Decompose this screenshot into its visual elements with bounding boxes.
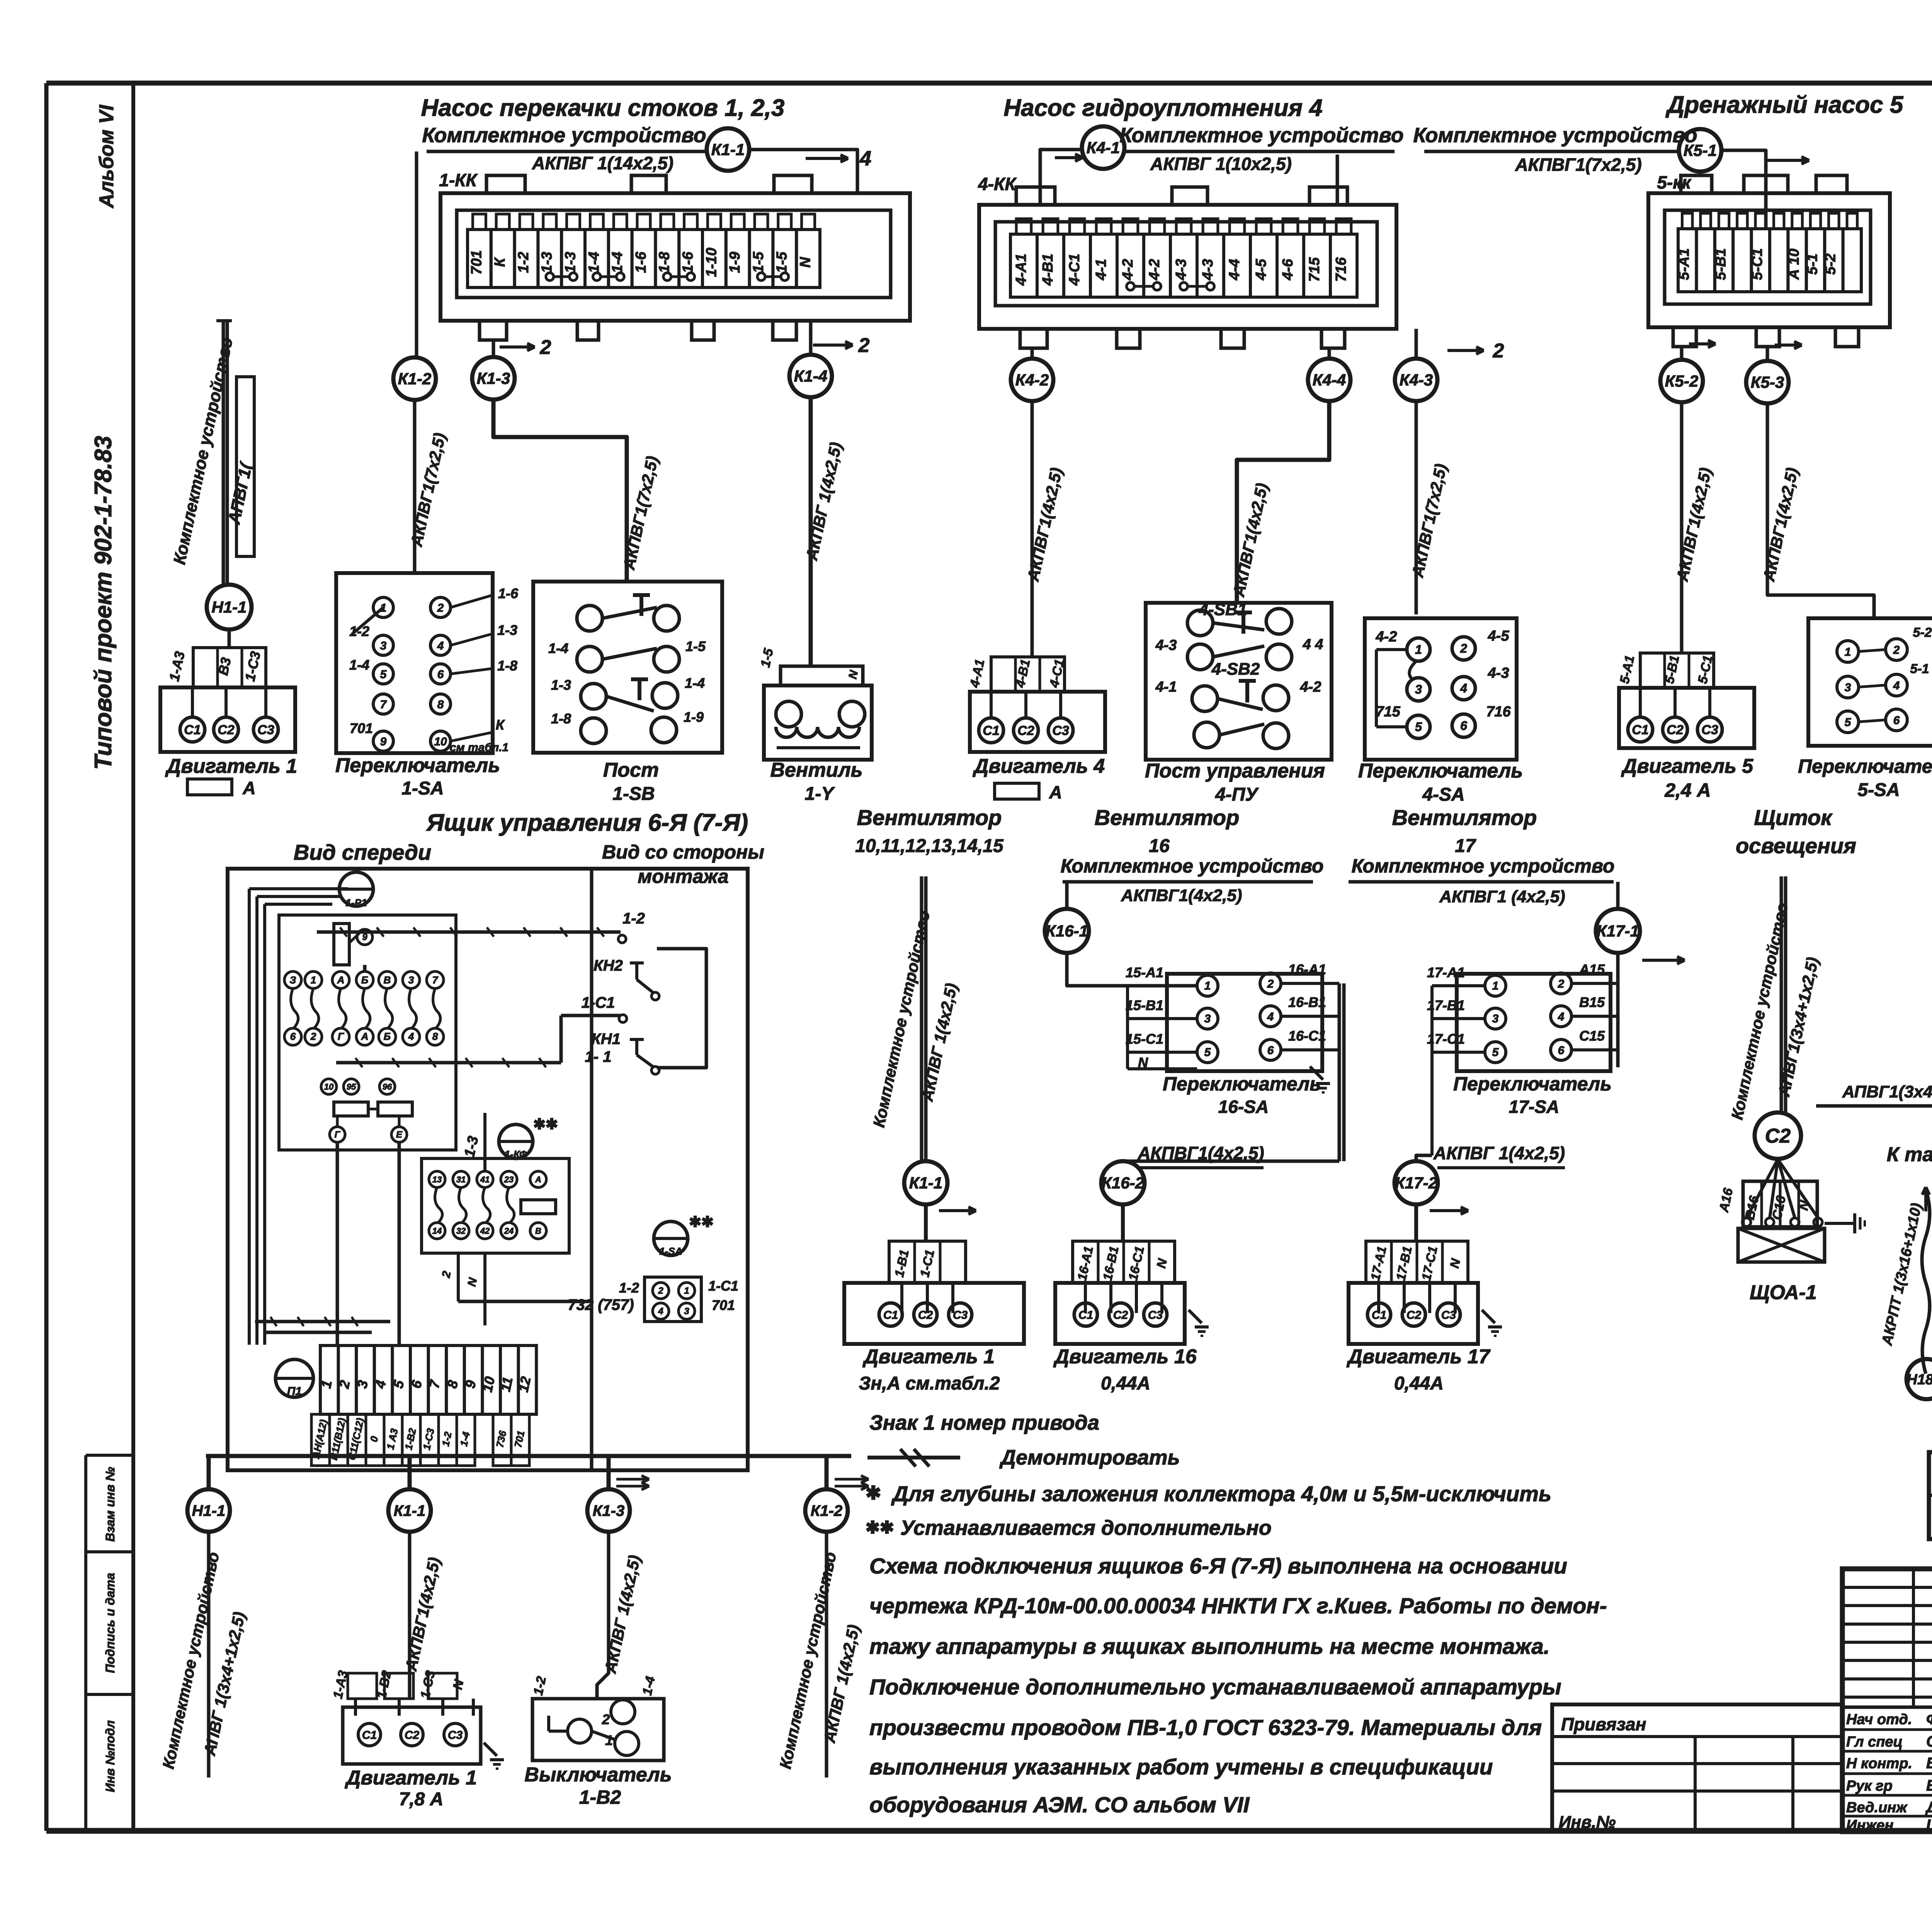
svg-text:1-SA: 1-SA [401,778,444,799]
svg-text:Двигатель 17: Двигатель 17 [1346,1345,1490,1368]
svg-text:Переключатель: Переключатель [1453,1073,1612,1095]
svg-text:3: 3 [684,1306,689,1317]
svg-text:1: 1 [1845,646,1851,658]
connector К1-4 [789,355,832,397]
svg-text:3: 3 [408,974,414,986]
svg-text:С3: С3 [448,1729,463,1742]
svg-text:1-4: 1-4 [586,252,602,273]
wire К1-3 down to switch 1-В2 [597,1532,609,1699]
svg-text:Вед.инж: Вед.инж [1846,1800,1908,1816]
switch Переключатель 17-SA [1457,974,1611,1071]
svg-text:4: 4 [1267,1010,1274,1023]
svg-text:6: 6 [437,668,444,681]
svg-text:К4-2: К4-2 [1015,371,1049,389]
wire К16-1 to switch 16-SA [1067,953,1197,986]
terminal circles 10 95 96 [321,1079,337,1094]
svg-text:Вентилятор: Вентилятор [857,805,1002,830]
svg-text:Подпись и дата: Подпись и дата [103,1573,117,1673]
connector К16-2 [1101,1161,1145,1204]
svg-text:4: 4 [1893,679,1900,692]
connector Н1-1 (cabinet) [187,1489,230,1532]
connector К5-2 [1660,360,1703,402]
svg-text:Барчан: Барчан [1926,1777,1932,1794]
svg-text:Двигатель 16: Двигатель 16 [1053,1345,1197,1368]
svg-text:6: 6 [1558,1044,1565,1057]
svg-text:4: 4 [658,1306,663,1317]
svg-text:13: 13 [432,1175,442,1184]
svg-text:4-5: 4-5 [1488,628,1510,644]
wire header bus vent17 [1349,880,1614,884]
svg-text:1-5: 1-5 [750,252,767,273]
svg-text:Бондарь: Бондарь [1926,1755,1932,1772]
svg-text:1-2: 1-2 [515,252,532,273]
svg-text:1-8: 1-8 [497,658,517,674]
wire К1-3 down to post 1-SB [493,400,627,582]
svg-text:1- 1: 1- 1 [585,1048,612,1065]
svg-text:4 4: 4 4 [1303,636,1323,653]
arrow at fans К1-1 [939,1209,976,1212]
svg-text:716: 716 [1333,257,1349,282]
motor Двигатель 1 (upper left) [193,648,266,687]
connector К17-1 [1596,909,1640,953]
svg-text:К: К [492,257,508,267]
svg-text:✱✱: ✱✱ [689,1214,714,1230]
svg-text:701: 701 [468,250,485,274]
svg-text:Н контр.: Н контр. [1846,1755,1912,1772]
svg-text:В15: В15 [1579,994,1605,1010]
svg-text:4-1: 4-1 [1155,679,1177,695]
svg-text:4: 4 [408,1031,414,1042]
wire header bus section 1 [427,150,707,153]
svg-text:5-1: 5-1 [1804,253,1820,275]
svg-text:96: 96 [383,1082,392,1092]
wire block to К1-3 [492,342,495,357]
svg-text:✱✱: ✱✱ [533,1116,558,1133]
svg-text:К5-1: К5-1 [1684,141,1717,160]
svg-text:С3: С3 [1701,723,1718,737]
svg-text:К1-4: К1-4 [794,367,828,385]
title block main [1842,1569,1932,1832]
svg-text:4-5: 4-5 [1253,259,1269,281]
connector К4-3 [1415,329,1418,359]
svg-text:5-2: 5-2 [1913,625,1932,640]
svg-text:П1: П1 [287,1385,302,1398]
arrow demontage 2 (section 4) [1447,349,1484,352]
svg-text:15-А1: 15-А1 [1126,964,1163,980]
svg-text:К1-3: К1-3 [593,1502,624,1519]
wires from relay box down [457,1253,460,1301]
svg-text:2: 2 [1893,644,1900,657]
svg-text:✱: ✱ [866,1483,881,1504]
svg-text:1-6: 1-6 [498,585,519,601]
svg-text:4-1: 4-1 [1093,259,1109,281]
svg-text:С15: С15 [1579,1028,1605,1044]
svg-text:Дренажный насос 5: Дренажный насос 5 [1665,92,1904,118]
svg-text:1-КК: 1-КК [439,170,478,190]
svg-text:С1: С1 [1372,1309,1386,1322]
connector К1-3 [472,357,515,400]
svg-text:Комплектное устройство: Комплектное устройство [1352,855,1615,877]
svg-text:Вид со стороны: Вид со стороны [602,841,764,863]
valve Вентиль 1-Y [781,666,863,685]
svg-text:2: 2 [1493,340,1504,362]
svg-text:1-3: 1-3 [497,622,517,638]
svg-text:5-кк: 5-кк [1657,172,1692,192]
svg-text:4-6: 4-6 [1280,259,1296,281]
svg-text:Двигатель 1: Двигатель 1 [862,1345,995,1368]
wire К5-3 down to switch 5-SA [1767,403,1874,618]
wire block to К4-2 [1031,348,1034,359]
svg-text:К4-3: К4-3 [1400,371,1433,389]
wire block to К5-3 [1766,347,1769,361]
connector К1-2 [393,357,436,400]
relay sub-box [422,1158,569,1253]
svg-text:З: З [290,974,296,986]
wire header bus section 5 [1424,150,1679,153]
svg-text:16: 16 [1149,836,1170,856]
svg-text:Двигатель 1: Двигатель 1 [345,1767,477,1789]
margin stamp boxes [84,1455,87,1831]
svg-text:6: 6 [1267,1044,1274,1057]
svg-text:1: 1 [1415,643,1422,657]
svg-text:7: 7 [432,974,439,986]
svg-text:Рук гр: Рук гр [1846,1778,1893,1794]
svg-text:715: 715 [1306,257,1323,282]
svg-text:С2: С2 [1406,1309,1422,1322]
svg-text:Комплектное устройство: Комплектное устройство [1061,855,1324,877]
svg-text:5-2: 5-2 [1823,253,1839,275]
svg-text:А: А [337,974,345,986]
svg-text:6: 6 [1893,714,1900,727]
svg-text:Г: Г [335,1129,341,1140]
svg-text:3: 3 [1204,1012,1211,1025]
svg-text:1-2: 1-2 [619,1280,639,1296]
svg-text:2: 2 [1460,641,1467,655]
wire К4-2 down to motor 4 [1031,401,1034,657]
svg-text:Устанавливается дополнительно: Устанавливается дополнительно [900,1516,1272,1539]
svg-text:3: 3 [1492,1012,1499,1025]
svg-text:0,44А: 0,44А [1394,1373,1444,1394]
connector К1-1 (cabinet) [388,1489,431,1532]
svg-text:Цветочкина: Цветочкина [1926,1817,1932,1834]
terminal box 2-1-4-3 [645,1277,701,1322]
svg-text:Ящик управления 6-Я (7-Я): Ящик управления 6-Я (7-Я) [426,810,748,836]
svg-text:4-SA: 4-SA [1422,784,1464,805]
svg-text:Инжен: Инжен [1846,1817,1893,1834]
svg-text:14: 14 [432,1226,442,1236]
svg-text:Нач отд.: Нач отд. [1846,1711,1912,1728]
svg-text:41: 41 [480,1175,490,1184]
svg-text:7: 7 [380,698,387,711]
svg-text:К1-3: К1-3 [477,369,510,388]
svg-text:1: 1 [684,1286,689,1296]
control post Пост 1-SB [533,582,722,753]
svg-text:4: 4 [437,640,444,652]
svg-text:оборудования АЭМ. СО альбо: оборудования АЭМ. СО альбом VII [869,1793,1250,1817]
wire with ticks lower [336,1061,561,1065]
svg-text:3: 3 [1845,681,1851,694]
svg-text:Дорофеев: Дорофеев [1925,1799,1932,1816]
svg-text:10: 10 [324,1082,334,1092]
svg-text:✱✱: ✱✱ [866,1518,894,1537]
svg-text:4-2: 4-2 [1120,259,1136,281]
svg-text:2,4 А: 2,4 А [1664,779,1711,801]
control cabinet outer box [228,869,748,1470]
svg-text:2: 2 [602,1711,610,1727]
svg-text:1-Y: 1-Y [805,784,835,804]
svg-text:чертежа КРД-10м-00.00.00034 Н: чертежа КРД-10м-00.00.00034 ННКТИ ГХ г.К… [869,1594,1607,1618]
svg-text:Щиток: Щиток [1754,805,1833,830]
svg-text:1-4: 1-4 [548,640,568,656]
svg-text:АКПВГ1(7х2,5): АКПВГ1(7х2,5) [1515,155,1641,175]
svg-text:1: 1 [1492,980,1499,992]
svg-text:12: 12 [515,1375,534,1394]
svg-text:В: В [535,1226,541,1236]
svg-text:С1: С1 [1078,1309,1093,1322]
svg-text:Двигатель 5: Двигатель 5 [1621,755,1753,777]
svg-text:10: 10 [479,1375,498,1394]
connector К17-2 [1395,1161,1438,1204]
svg-text:2: 2 [437,602,444,614]
svg-text:2: 2 [540,336,551,359]
svg-text:Гл спец: Гл спец [1846,1734,1903,1750]
svg-text:Переключатель: Переключатель [1798,755,1932,777]
svg-text:С3: С3 [953,1309,968,1322]
wire block to К1-4 [809,321,813,355]
svg-text:АПВГ1(3х4+1х2,5): АПВГ1(3х4+1х2,5) [1842,1082,1932,1101]
svg-text:С2: С2 [1017,723,1034,738]
svg-text:С2: С2 [918,1309,933,1322]
revision table rows [1842,1586,1932,1589]
svg-text:С1: С1 [362,1729,377,1742]
svg-text:АКПВГ1(4х2,5): АКПВГ1(4х2,5) [1121,886,1242,905]
arrow at К5-1 [1767,159,1809,162]
svg-text:С1: С1 [1632,723,1648,737]
device 1-Р1 [339,872,373,906]
wire bus down to К17-1 [1616,882,1620,909]
svg-text:4: 4 [1460,681,1467,695]
motor Двигатель 1 (fans) with strip [889,1241,966,1283]
connector К4-2 [1011,359,1053,401]
svg-text:Переключатель: Переключатель [335,754,500,777]
svg-text:С2: С2 [1667,723,1684,737]
svg-text:32: 32 [456,1226,466,1236]
svg-text:2: 2 [1267,978,1274,990]
svg-text:4-4: 4-4 [1226,259,1243,281]
svg-text:1-С1: 1-С1 [582,994,615,1011]
motor Двигатель 17 with strip [1366,1241,1468,1283]
wire К5-2 down to motor 5 [1680,402,1684,653]
svg-text:5-А1: 5-А1 [1676,248,1692,280]
svg-text:9: 9 [380,735,387,748]
svg-text:1-С1: 1-С1 [708,1278,738,1294]
svg-text:К16-1: К16-1 [1046,922,1088,940]
svg-text:5: 5 [1845,716,1852,729]
svg-text:С2: С2 [218,723,235,737]
svg-text:Для глубины заложения колле: Для глубины заложения коллектора 4,0м и … [891,1482,1551,1506]
switch Переключатель 4-SA [1365,618,1517,760]
svg-text:АКПВГ 1(14х2,5): АКПВГ 1(14х2,5) [532,153,673,173]
svg-text:2: 2 [1558,978,1565,990]
svg-text:4-3: 4-3 [1200,259,1216,281]
wire link right side [657,949,706,1068]
svg-text:ЩОА-1: ЩОА-1 [1750,1281,1817,1304]
svg-text:15-С1: 15-С1 [1126,1031,1163,1047]
wire К1-4 down to valve 1-Y [809,397,813,666]
svg-text:Альбом VI: Альбом VI [95,104,118,209]
svg-text:1-9: 1-9 [684,709,704,725]
svg-text:4-3: 4-3 [1173,259,1189,281]
svg-text:КН1: КН1 [591,1031,621,1048]
arrow demontage 2 (left) [500,345,535,349]
svg-text:произвести проводом ПВ-1,0: произвести проводом ПВ-1,0 ГОСТ 6323-79.… [869,1715,1542,1740]
wire relay box to П1 strip verticals [336,1142,339,1345]
svg-text:4-2: 4-2 [1300,679,1321,695]
svg-text:1-SA: 1-SA [659,1245,682,1257]
wire fans К1-1 down to motor [924,1204,928,1241]
svg-text:23: 23 [504,1175,514,1184]
svg-text:15-В1: 15-В1 [1126,997,1163,1013]
svg-text:освещения: освещения [1736,833,1856,858]
svg-text:715: 715 [1376,704,1400,720]
wire К17-2 down to motor 17 [1414,1204,1418,1241]
svg-text:Обозная: Обозная [1926,1733,1932,1750]
connector Н18-1 [1906,1359,1932,1399]
svg-text:95: 95 [347,1082,356,1092]
svg-text:8: 8 [437,698,444,711]
svg-text:1-2: 1-2 [349,623,369,639]
note Демонтировать with symbol [867,1456,960,1459]
svg-text:17-SA: 17-SA [1509,1097,1559,1117]
svg-text:К4-4: К4-4 [1313,371,1346,389]
svg-text:К1-1: К1-1 [909,1174,943,1192]
svg-text:А: А [361,1031,369,1042]
svg-text:Знак 1 номер привода: Знак 1 номер привода [869,1411,1099,1434]
frame inner left border [131,83,135,1831]
terminal block assembly 1-КК [440,193,910,321]
svg-text:Фролов: Фролов [1926,1711,1932,1728]
wire feed left into 1-КК [415,151,418,357]
svg-text:1-4: 1-4 [349,657,369,673]
svg-text:42: 42 [480,1226,490,1236]
wire К1-2 down [825,1532,828,1778]
panel ЩОА-1 crossed box [1738,1228,1825,1262]
arrow at К5-3 [1775,344,1802,347]
svg-text:К1-1: К1-1 [711,141,745,159]
svg-text:С2: С2 [1765,1125,1791,1147]
ground at ЩОА-1 [1825,1222,1855,1225]
svg-text:В: В [384,974,391,986]
svg-text:1-SB: 1-SB [612,784,655,804]
svg-text:КН2: КН2 [594,957,623,974]
svg-text:С3: С3 [1052,723,1069,738]
svg-text:С3: С3 [1441,1309,1456,1322]
svg-text:С3: С3 [257,723,274,737]
wire К1-1 to block right side [749,150,857,193]
arrow at К17-1 [1642,959,1685,962]
svg-text:К: К [496,717,505,733]
connector К5-1 [1679,129,1721,172]
svg-text:5-С1: 5-С1 [1749,248,1765,280]
svg-text:31: 31 [456,1175,466,1184]
wire К4-3 down to switch 4-SA [1415,401,1418,614]
svg-text:А 10: А 10 [1786,248,1802,280]
svg-text:К4-1: К4-1 [1087,139,1120,157]
wire bundle left side [248,889,251,1345]
connector К16-1 [1045,909,1089,953]
svg-text:Привязан: Привязан [1561,1714,1646,1734]
arrow at К5-2 [1689,342,1716,345]
wire К17-1 down right side of 17-SA [1616,953,1620,1067]
svg-text:5: 5 [1415,720,1422,734]
svg-text:1: 1 [605,1732,613,1748]
svg-text:Насос перекачки стоков 1, 2,3: Насос перекачки стоков 1, 2,3 [421,95,785,121]
svg-text:701: 701 [350,720,373,736]
svg-text:6: 6 [1460,719,1467,733]
svg-text:Схема подключения ящиков 6-: Схема подключения ящиков 6-Я (7-Я) выпол… [869,1554,1567,1579]
svg-text:А15: А15 [1579,961,1605,977]
svg-text:Е: Е [396,1129,403,1140]
terminal block assembly 5-КК [1648,193,1890,327]
cable Комплектное устройство АПВГ1 (left feeder) [216,319,232,322]
wire Н1-1 to motor 1 [228,629,231,648]
svg-text:5: 5 [1492,1046,1499,1059]
connector К1-2 (cabinet) [805,1489,848,1532]
svg-text:С1: С1 [184,723,201,737]
svg-text:8: 8 [432,1031,438,1042]
cable АКРПТ1(3х16+1х10) to hoist 18 [1922,1190,1930,1374]
svg-text:4-С1: 4-С1 [1066,253,1083,286]
svg-text:5: 5 [1204,1046,1211,1059]
svg-text:1-10: 1-10 [703,248,719,277]
svg-text:16-А1: 16-А1 [1288,961,1326,977]
connector К4-4 [1308,359,1350,401]
wire header bus vent16 [1063,880,1313,884]
svg-text:А: А [1049,782,1062,802]
cable feeder С2 (Комплектное устройство) [1780,876,1783,1112]
motor Двигатель 5 [1640,653,1714,688]
wire to Н2 [1816,1106,1932,1111]
svg-text:К16-2: К16-2 [1102,1174,1144,1192]
svg-text:5-В1: 5-В1 [1713,248,1729,280]
svg-text:1: 1 [1204,980,1211,992]
svg-text:4-А1: 4-А1 [1013,253,1029,286]
arrow into К4-1 [1055,156,1083,159]
switch Переключатель 1-SA [336,573,493,753]
svg-text:С1: С1 [883,1309,898,1322]
svg-text:16-SA: 16-SA [1218,1097,1269,1117]
wire К4-4 down to post 4-ПУ [1237,401,1329,603]
П1 lower marking cells [311,1414,330,1466]
svg-text:К5-3: К5-3 [1751,373,1784,391]
svg-text:16-В1: 16-В1 [1288,994,1326,1010]
svg-text:0,44А: 0,44А [1101,1373,1150,1394]
svg-text:тажу аппаратуры в ящиках в: тажу аппаратуры в ящиках выполнить на ме… [869,1634,1550,1659]
svg-text:К1-2: К1-2 [811,1502,842,1519]
earth at 16-SA [1310,1067,1323,1080]
svg-text:Переключатель: Переключатель [1163,1073,1321,1095]
svg-text:Комплектное устройство: Комплектное устройство [422,124,706,147]
aux contact rectangles [334,1102,368,1116]
svg-text:С3: С3 [1148,1309,1163,1322]
svg-text:Вентилятор: Вентилятор [1392,805,1537,830]
svg-text:1-6: 1-6 [680,252,696,273]
svg-text:4-2: 4-2 [1146,259,1163,281]
wire Н1-1 down [207,1532,211,1778]
svg-text:выполнения указанных работ: выполнения указанных работ учтены в спец… [869,1755,1493,1779]
panel ЩОА-1 terminals [1743,1181,1817,1227]
wires from cabinet to bottom connectors [206,1454,851,1458]
